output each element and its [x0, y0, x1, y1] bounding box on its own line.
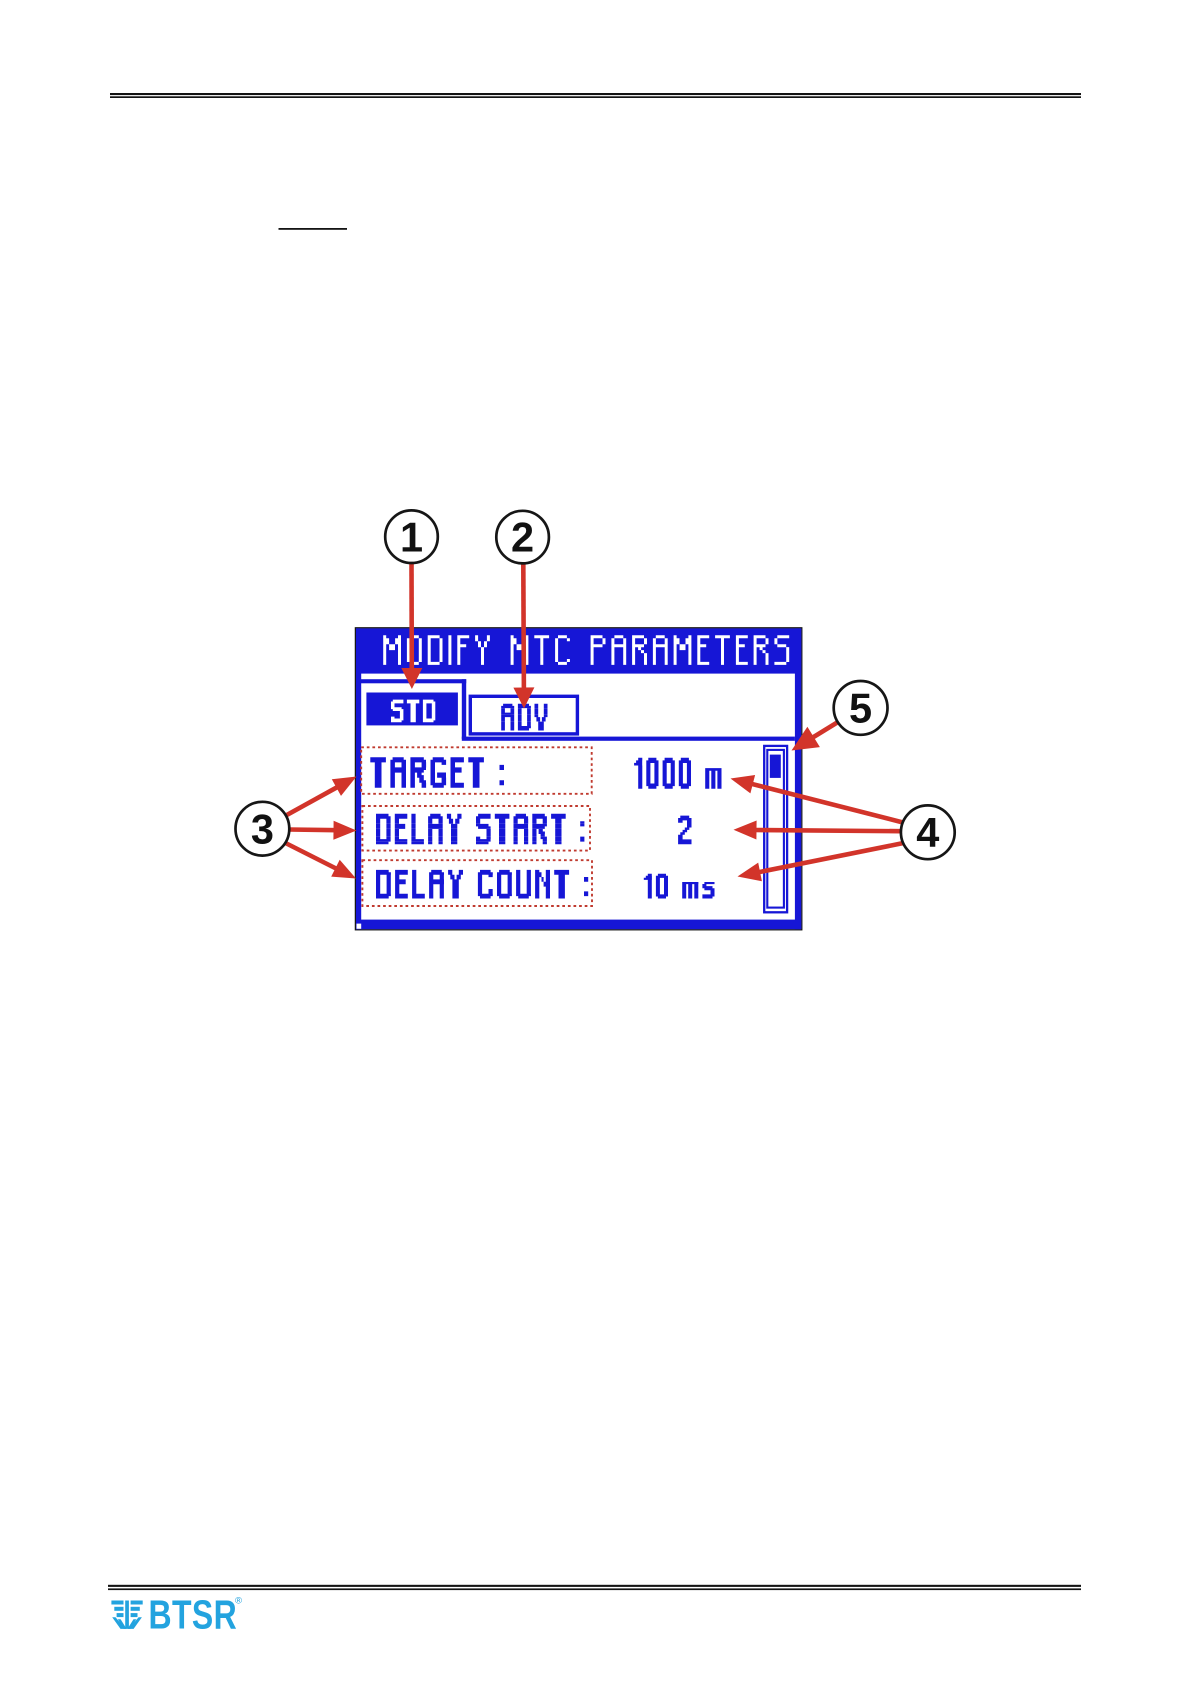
scrollbar outer frame	[764, 746, 787, 912]
BTSR logo text	[149, 1592, 238, 1638]
arrow from 1 to STD tab	[409, 563, 414, 672]
svg-text:BTSR: BTSR	[149, 1592, 238, 1638]
header double rule	[110, 93, 1081, 98]
arrow 4 to value 1000 m	[749, 783, 903, 822]
svg-text:4: 4	[916, 809, 939, 856]
arrow 3 to TARGET box	[285, 786, 340, 816]
right border	[795, 628, 801, 929]
red dashed box TARGET	[361, 747, 592, 794]
svg-text:5: 5	[849, 685, 872, 732]
label DELAY START :	[376, 814, 584, 845]
value 2	[678, 816, 691, 845]
callout circle 5	[834, 681, 888, 735]
title text MODIFY MTC PARAMETERS	[383, 635, 789, 665]
bottom-left white notch	[357, 924, 362, 929]
screen outer black outline + white face	[355, 628, 801, 930]
svg-text:2: 2	[511, 514, 534, 561]
bottom bar	[356, 920, 801, 930]
arrow 3 to DELAY COUNT box	[285, 843, 340, 871]
red dashed box DELAY START	[362, 806, 590, 851]
left border	[356, 628, 361, 929]
STD text	[391, 700, 435, 723]
tab row bottom line	[462, 737, 795, 741]
footer double rule	[108, 1585, 1081, 1590]
arrow from 2 to ADV tab	[521, 563, 526, 691]
scrollbar inner frame	[767, 750, 784, 908]
arrow 3 to DELAY START box	[289, 827, 338, 832]
svg-text:1: 1	[400, 513, 423, 560]
BTSR logo emblem	[111, 1601, 142, 1629]
arrow 5 to scrollbar	[810, 722, 838, 739]
arrow 4 to value 10 ms	[756, 843, 903, 873]
callout circle 4	[901, 805, 955, 859]
value 10 ms	[644, 874, 715, 899]
label DELAY COUNT :	[376, 870, 588, 899]
short underline	[279, 228, 348, 230]
ADV text	[501, 704, 547, 731]
STD tab right edge	[462, 679, 466, 739]
svg-text:®: ®	[235, 1596, 242, 1607]
STD tab top line	[357, 679, 467, 683]
STD tab fill	[366, 693, 458, 726]
value 1000 m	[634, 758, 721, 789]
arrow 4 to value 2	[753, 830, 901, 831]
callout circle 3	[236, 802, 290, 856]
label TARGET :	[370, 757, 504, 788]
scrollbar thumb	[770, 755, 781, 778]
ADV tab box	[470, 696, 577, 734]
title bar	[356, 628, 801, 673]
red dashed box DELAY COUNT	[362, 860, 592, 906]
callout circle 1	[385, 510, 438, 563]
callout circle 2	[496, 511, 549, 564]
svg-text:3: 3	[251, 805, 274, 852]
